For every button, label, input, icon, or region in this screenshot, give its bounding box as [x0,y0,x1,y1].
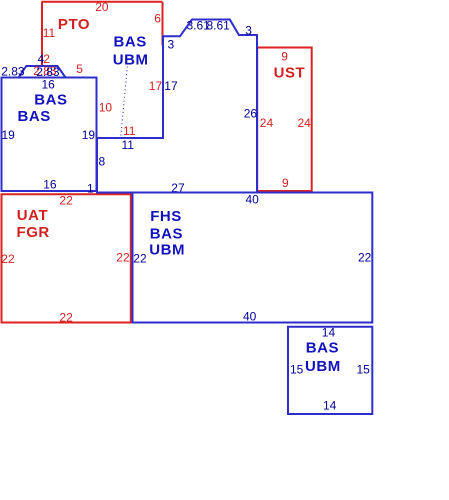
svg-text:40: 40 [243,310,257,324]
svg-text:UBM: UBM [149,242,185,259]
svg-text:22: 22 [59,311,73,325]
svg-text:2.83: 2.83 [1,65,25,79]
svg-text:19: 19 [2,128,16,142]
svg-text:FGR: FGR [17,224,50,241]
PTO right wall [162,2,164,46]
UAT FGR outline [2,194,131,322]
svg-text:9: 9 [281,49,288,63]
svg-text:UST: UST [274,65,306,82]
svg-text:3: 3 [245,24,252,38]
svg-text:22: 22 [116,251,130,265]
svg-text:40: 40 [246,193,260,207]
FHS outline [133,193,373,323]
svg-text:22: 22 [59,193,73,207]
svg-text:11: 11 [43,26,56,40]
svg-text:17: 17 [149,79,163,93]
svg-text:20: 20 [95,0,109,14]
BAS UBM outline [97,20,257,193]
svg-text:11: 11 [122,138,135,152]
svg-text:1: 1 [87,181,94,195]
PTO top wall [42,1,163,3]
svg-text:15: 15 [357,363,371,377]
svg-text:BAS: BAS [114,33,147,50]
svg-text:22: 22 [133,251,147,265]
svg-text:24: 24 [298,116,312,130]
svg-text:5: 5 [76,62,83,76]
svg-text:UBM: UBM [305,358,341,375]
svg-text:PTO: PTO [58,16,90,33]
BAS left outline [2,78,97,192]
svg-text:3: 3 [168,37,175,51]
svg-text:UAT: UAT [17,207,48,224]
svg-text:14: 14 [323,398,337,412]
svg-text:10: 10 [99,100,113,114]
svg-text:BAS: BAS [306,340,339,357]
svg-text:26: 26 [244,107,258,121]
UST outline [257,48,312,192]
svg-text:15: 15 [290,363,304,377]
svg-text:16: 16 [43,178,57,192]
svg-text:14: 14 [322,325,336,339]
svg-text:24: 24 [260,116,274,130]
svg-text:BAS: BAS [18,108,51,125]
BAS bay bump [19,66,66,78]
svg-text:11: 11 [123,124,136,138]
svg-text:6: 6 [154,11,161,25]
svg-text:UBM: UBM [113,52,149,69]
svg-text:19: 19 [82,128,96,142]
svg-text:22: 22 [1,252,15,266]
leader dotted line [121,67,128,137]
svg-text:BAS: BAS [150,226,183,243]
PTO left wall [41,2,43,66]
svg-text:16: 16 [42,77,56,91]
svg-text:17: 17 [164,79,178,93]
svg-text:FHS: FHS [150,208,182,225]
svg-text:8: 8 [99,155,106,169]
svg-text:BAS: BAS [34,91,67,108]
svg-text:8.61: 8.61 [207,18,231,32]
BAS UBM bottom-right outline [288,327,372,414]
svg-text:22: 22 [358,251,372,265]
svg-text:9: 9 [282,176,289,190]
